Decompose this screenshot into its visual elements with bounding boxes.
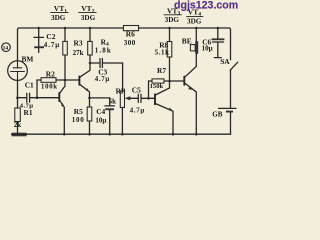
svg-text:3DG: 3DG [81,14,96,22]
ground bar [12,133,27,137]
resistor R4 [88,28,112,63]
node VT3 collector junction dot [168,80,171,83]
node VT2 collector junction dot [89,62,92,65]
svg-text:RP: RP [116,86,126,95]
resistor R1 [14,98,33,134]
capacitor C4 [95,98,114,134]
wire BM to C1 node [17,80,19,97]
svg-text:300: 300 [124,39,136,47]
svg-text:3DG: 3DG [165,16,180,24]
earphone BE [182,28,198,54]
capacitor C5 [130,85,149,114]
svg-text:4.7μ: 4.7μ [44,41,60,49]
svg-text:10μ: 10μ [202,45,213,53]
wire top supply rail [18,28,231,61]
wire bottom common rail [12,133,231,135]
wire C5 to VT3 base [149,97,156,99]
circled figure number 14 [2,43,11,52]
svg-text:R7: R7 [157,66,166,75]
label VT2 3DG [79,4,97,22]
svg-text:1.8k: 1.8k [95,47,112,55]
svg-text:C2: C2 [46,32,55,41]
svg-text:14: 14 [3,46,9,52]
svg-text:3DG: 3DG [187,18,202,26]
capacitor C1 [18,81,60,110]
svg-text:4.7μ: 4.7μ [95,76,110,83]
resistor R2 [37,69,65,97]
transistor VT2 [79,63,90,98]
svg-text:BM: BM [22,55,34,64]
svg-text:R6: R6 [126,30,135,39]
svg-text:5k: 5k [109,97,117,105]
node VT1 collector junction dot [64,79,67,82]
microphone BM [8,55,34,81]
transistor VT4 [184,54,196,134]
svg-text:R1: R1 [24,108,33,117]
svg-text:100k: 100k [41,84,58,91]
svg-text:C5: C5 [132,85,141,94]
wire VT1 collector to VT2 base [65,79,79,81]
switch SA [220,57,238,108]
svg-text:C1: C1 [25,81,34,90]
svg-text:GB: GB [212,111,222,119]
svg-text:150k: 150k [150,83,164,90]
node VT3 base junction dot [147,97,150,100]
capacitor C2 [34,28,60,52]
battery GB [212,108,236,134]
svg-text:R3: R3 [74,38,83,47]
svg-text:dgjs123.com: dgjs123.com [174,0,238,11]
svg-text:100: 100 [72,116,85,124]
wire VT3 collector to VT4 base [170,80,185,82]
svg-text:10μ: 10μ [95,116,106,124]
svg-text:BE: BE [182,37,192,46]
potentiometer RP [109,86,138,133]
svg-text:5.1k: 5.1k [155,48,170,56]
node top rail junction dots [37,27,219,30]
capacitor C6 [202,28,225,58]
svg-text:4.7μ: 4.7μ [130,107,145,114]
resistor R5 [72,98,92,134]
transistor VT1 [59,80,65,134]
svg-text:SA: SA [220,57,230,66]
node base VT1 junction dot [36,96,39,99]
resistor R3 [63,28,84,80]
label VT3 3DG [164,6,181,24]
label VT1 3DG [51,4,69,22]
wire C3 to RP top [122,63,124,91]
node bottom rail junction dots [63,133,198,136]
resistor R6 [123,26,138,47]
transistor VT3 [155,81,173,134]
label VT4 3DG [187,7,203,25]
svg-text:27k: 27k [73,49,84,57]
svg-text:R2: R2 [46,69,55,78]
wire VT2 emitter to C4 [90,97,110,99]
resistor R8 [155,28,172,81]
svg-text:2k: 2k [14,121,21,129]
node VT2 emitter junction dot [88,97,91,100]
resistor R7 [149,66,170,98]
svg-text:3DG: 3DG [51,14,66,22]
capacitor C3 [90,59,123,84]
svg-text:C4: C4 [96,107,105,116]
